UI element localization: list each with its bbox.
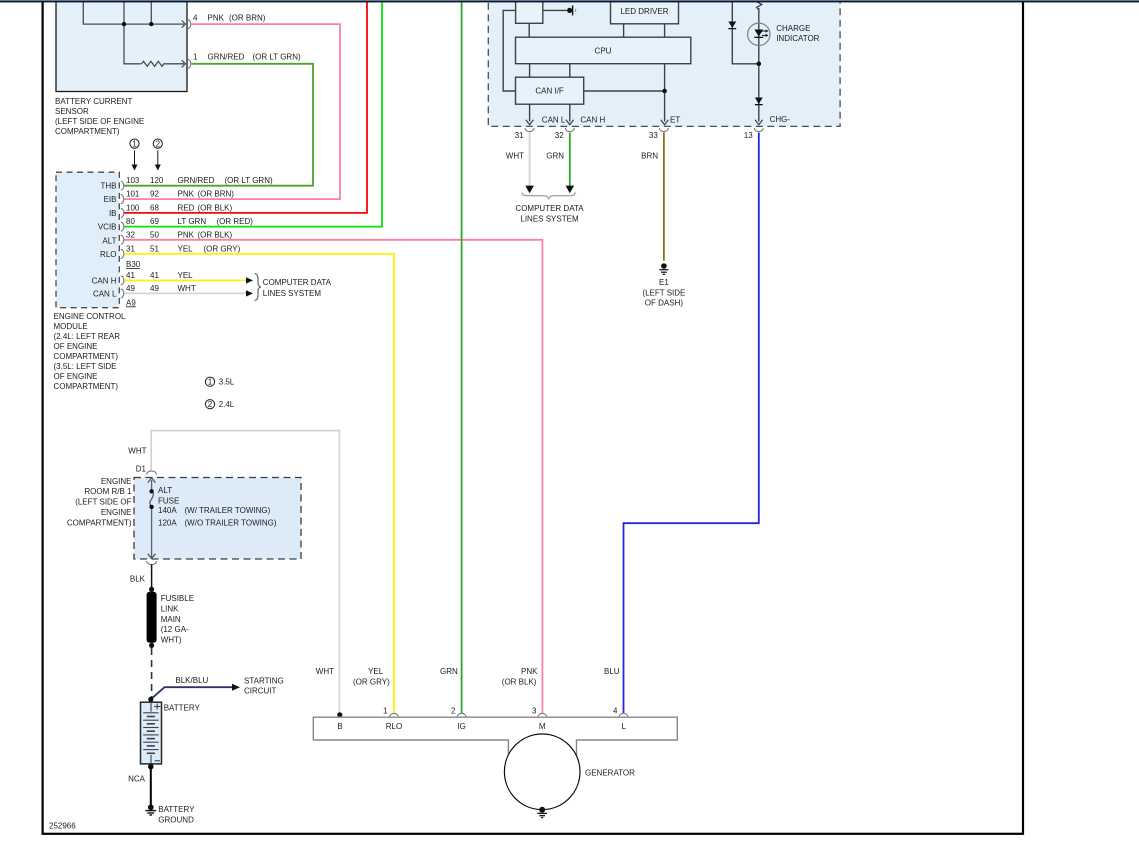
svg-text:CAN L: CAN L: [542, 116, 566, 125]
svg-text:SENSOR: SENSOR: [55, 107, 89, 116]
svg-text:IB: IB: [109, 209, 117, 218]
svg-text:(OR BLK): (OR BLK): [198, 203, 233, 212]
svg-text:2: 2: [208, 400, 213, 409]
svg-text:FUSE: FUSE: [158, 496, 179, 505]
svg-text:LINK: LINK: [161, 604, 179, 613]
svg-text:(LEFT SIDE: (LEFT SIDE: [642, 288, 685, 297]
svg-text:YEL: YEL: [178, 244, 194, 253]
svg-text:CAN H: CAN H: [580, 116, 605, 125]
svg-text:GRN/RED: GRN/RED: [208, 52, 245, 61]
svg-text:31: 31: [126, 244, 135, 253]
svg-text:68: 68: [150, 203, 159, 212]
svg-text:2: 2: [156, 139, 161, 148]
svg-text:M: M: [539, 722, 546, 731]
svg-text:CHG-: CHG-: [770, 115, 791, 124]
svg-text:(LEFT SIDE OF ENGINE: (LEFT SIDE OF ENGINE: [55, 117, 144, 126]
svg-text:GRN: GRN: [440, 667, 458, 676]
svg-text:4: 4: [193, 14, 198, 23]
svg-text:33: 33: [649, 131, 658, 140]
svg-text:WHT: WHT: [506, 152, 524, 161]
svg-text:CAN H: CAN H: [92, 276, 117, 285]
svg-text:BATTERY CURRENT: BATTERY CURRENT: [55, 97, 132, 106]
svg-text:49: 49: [126, 284, 135, 293]
svg-text:PNK: PNK: [178, 190, 195, 199]
svg-text:A9: A9: [126, 298, 136, 307]
svg-text:BRN: BRN: [641, 152, 658, 161]
svg-text:COMPUTER DATA: COMPUTER DATA: [263, 278, 332, 287]
svg-text:(W/O TRAILER TOWING): (W/O TRAILER TOWING): [185, 519, 277, 528]
svg-text:1: 1: [383, 707, 388, 716]
svg-text:(2.4L: LEFT REAR: (2.4L: LEFT REAR: [54, 332, 121, 341]
svg-text:4: 4: [613, 707, 618, 716]
svg-text:PNK: PNK: [521, 667, 538, 676]
svg-text:BLU: BLU: [604, 667, 620, 676]
svg-text:CIRCUIT: CIRCUIT: [244, 687, 277, 696]
svg-text:COMPARTMENT): COMPARTMENT): [67, 518, 132, 527]
svg-text:(LEFT SIDE OF: (LEFT SIDE OF: [75, 498, 131, 507]
svg-text:MODULE: MODULE: [54, 322, 88, 331]
svg-text:140A: 140A: [158, 506, 177, 515]
svg-text:THB: THB: [101, 182, 117, 191]
svg-text:LED DRIVER: LED DRIVER: [620, 7, 668, 16]
svg-text:32: 32: [555, 131, 564, 140]
svg-text:YEL: YEL: [178, 271, 194, 280]
svg-text:3: 3: [532, 707, 537, 716]
svg-text:B: B: [337, 722, 342, 731]
svg-text:CAN I/F: CAN I/F: [535, 87, 564, 96]
svg-text:CAN L: CAN L: [93, 289, 117, 298]
svg-text:VCIB: VCIB: [98, 223, 117, 232]
svg-text:80: 80: [126, 217, 135, 226]
svg-text:E1: E1: [659, 278, 669, 287]
svg-text:(OR GRY): (OR GRY): [353, 677, 390, 686]
svg-text:ENGINE: ENGINE: [101, 508, 132, 517]
svg-text:WHT: WHT: [128, 446, 146, 455]
svg-text:(OR BRN): (OR BRN): [229, 14, 266, 23]
svg-text:INDICATOR: INDICATOR: [776, 34, 819, 43]
svg-text:COMPUTER DATA: COMPUTER DATA: [515, 204, 584, 213]
svg-text:OF ENGINE: OF ENGINE: [54, 342, 98, 351]
svg-text:STARTING: STARTING: [244, 677, 284, 686]
svg-text:(OR LT GRN): (OR LT GRN): [253, 52, 301, 61]
svg-text:50: 50: [150, 230, 159, 239]
svg-text:WHT: WHT: [178, 284, 196, 293]
svg-text:103: 103: [126, 176, 140, 185]
svg-text:RED: RED: [178, 203, 195, 212]
svg-text:RLO: RLO: [100, 250, 116, 259]
svg-text:32: 32: [126, 230, 135, 239]
svg-text:YEL: YEL: [368, 667, 384, 676]
svg-text:GRN/RED: GRN/RED: [178, 176, 215, 185]
svg-text:PNK: PNK: [208, 14, 225, 23]
svg-text:GRN: GRN: [546, 152, 564, 161]
svg-text:(12 GA-: (12 GA-: [161, 625, 189, 634]
svg-text:GENERATOR: GENERATOR: [585, 769, 635, 778]
svg-text:(OR BRN): (OR BRN): [198, 190, 235, 199]
svg-text:(OR LT GRN): (OR LT GRN): [225, 176, 273, 185]
svg-text:FUSIBLE: FUSIBLE: [161, 594, 194, 603]
svg-text:MAIN: MAIN: [161, 615, 181, 624]
svg-text:BLK/BLU: BLK/BLU: [175, 676, 208, 685]
svg-text:BATTERY: BATTERY: [164, 703, 201, 712]
svg-text:100: 100: [126, 203, 140, 212]
svg-text:LT GRN: LT GRN: [178, 217, 207, 226]
svg-text:92: 92: [150, 190, 159, 199]
svg-text:2.4L: 2.4L: [219, 400, 235, 409]
svg-text:13: 13: [744, 131, 753, 140]
svg-text:(3.5L: LEFT SIDE: (3.5L: LEFT SIDE: [54, 362, 117, 371]
svg-text:OF DASH): OF DASH): [645, 299, 684, 308]
svg-text:LINES SYSTEM: LINES SYSTEM: [263, 289, 322, 298]
svg-text:(W/ TRAILER TOWING): (W/ TRAILER TOWING): [185, 506, 271, 515]
svg-text:IG: IG: [457, 722, 465, 731]
svg-text:GROUND: GROUND: [158, 815, 194, 824]
svg-text:(OR BLK): (OR BLK): [502, 677, 537, 686]
svg-text:CPU: CPU: [595, 46, 612, 55]
svg-text:101: 101: [126, 190, 140, 199]
svg-text:RLO: RLO: [386, 722, 402, 731]
svg-text:1: 1: [132, 139, 137, 148]
svg-text:ET: ET: [670, 116, 680, 125]
svg-text:3.5L: 3.5L: [219, 378, 235, 387]
svg-text:(OR BLK): (OR BLK): [198, 230, 233, 239]
svg-text:CHARGE: CHARGE: [776, 24, 810, 33]
svg-text:31: 31: [515, 131, 524, 140]
svg-text:ENGINE: ENGINE: [101, 477, 132, 486]
svg-text:OF ENGINE: OF ENGINE: [54, 372, 98, 381]
svg-text:BATTERY: BATTERY: [158, 805, 195, 814]
svg-text:BLK: BLK: [130, 575, 146, 584]
svg-text:WHT): WHT): [161, 636, 182, 645]
svg-text:L: L: [621, 722, 626, 731]
svg-text:41: 41: [150, 271, 159, 280]
svg-text:1: 1: [193, 52, 198, 61]
svg-text:COMPARTMENT): COMPARTMENT): [54, 382, 119, 391]
svg-text:COMPARTMENT): COMPARTMENT): [55, 127, 120, 136]
svg-text:(OR RED): (OR RED): [217, 217, 254, 226]
svg-text:B30: B30: [126, 260, 141, 269]
svg-text:1: 1: [208, 377, 213, 386]
svg-text:ALT: ALT: [158, 486, 172, 495]
svg-text:EIB: EIB: [104, 195, 117, 204]
svg-text:41: 41: [126, 271, 135, 280]
svg-text:69: 69: [150, 217, 159, 226]
svg-text:2: 2: [451, 707, 456, 716]
svg-text:ROOM R/B 1: ROOM R/B 1: [84, 487, 132, 496]
svg-text:49: 49: [150, 284, 159, 293]
svg-text:PNK: PNK: [178, 230, 195, 239]
svg-text:120A: 120A: [158, 519, 177, 528]
svg-text:252966: 252966: [49, 822, 76, 831]
svg-text:(OR GRY): (OR GRY): [204, 244, 241, 253]
svg-text:51: 51: [150, 244, 159, 253]
svg-text:ALT: ALT: [102, 236, 116, 245]
svg-text:WHT: WHT: [316, 667, 334, 676]
svg-text:D1: D1: [136, 464, 147, 473]
svg-text:LINES SYSTEM: LINES SYSTEM: [520, 214, 579, 223]
svg-text:ENGINE CONTROL: ENGINE CONTROL: [54, 312, 127, 321]
svg-text:NCA: NCA: [128, 774, 146, 783]
svg-text:120: 120: [150, 176, 164, 185]
svg-text:COMPARTMENT): COMPARTMENT): [54, 352, 119, 361]
